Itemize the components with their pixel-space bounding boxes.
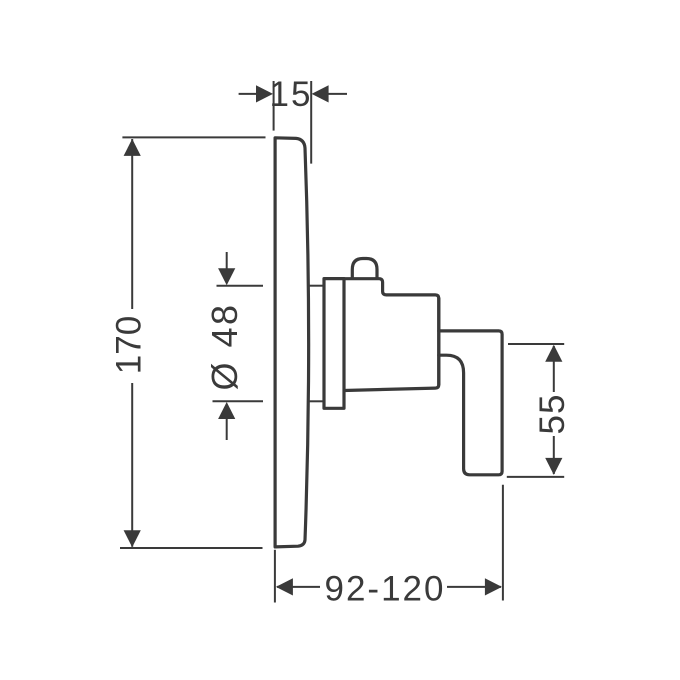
dim 55: top arrowhead (points up)	[545, 345, 562, 362]
flange sleeve	[324, 279, 344, 409]
dim 92-120: dimension line left segment	[277, 586, 320, 588]
temperature knob on top of valve body	[352, 259, 377, 279]
valve body	[344, 279, 439, 391]
dim 170: dimension line lower segment	[131, 383, 133, 547]
dim 55: bottom extension line	[507, 476, 564, 478]
svg-text:92-120: 92-120	[325, 570, 446, 609]
dim 92-120: dimension line right segment	[447, 586, 501, 588]
dim Ø48: bottom tick left part	[213, 400, 264, 402]
dim 15: right extension line	[310, 81, 312, 164]
dim Ø48: top tick right part (plate to flange)	[309, 285, 323, 287]
dim 92-120: right extension line	[502, 485, 504, 601]
dim 170: dimension line upper segment	[131, 139, 133, 309]
valve body right edge (redrawn over handle joint)	[437, 299, 440, 385]
dim 15: left leader tail	[239, 93, 257, 95]
dim Ø48: top arrowhead (points down)	[218, 268, 235, 285]
svg-text:55: 55	[533, 394, 572, 435]
dim 55: top extension line	[508, 343, 564, 345]
dim 170: bottom extension line	[120, 547, 263, 549]
lever handle	[439, 331, 502, 475]
svg-text:15: 15	[270, 75, 313, 114]
dim 15: right arrowhead	[312, 85, 329, 102]
dim 92-120: right arrowhead	[485, 578, 502, 595]
dim Ø48: top arrow tail	[226, 252, 228, 270]
dim 170: top extension line	[122, 136, 265, 138]
dim 15: left arrowhead	[256, 85, 273, 102]
dim 55: dimension line upper segment	[553, 346, 555, 392]
dim Ø48: bottom arrow tail	[226, 418, 228, 441]
dim Ø48: bottom arrowhead (points up)	[218, 402, 235, 419]
dim 15: left extension line	[273, 81, 275, 131]
svg-text:Ø 48: Ø 48	[204, 302, 245, 390]
dim 92-120: left extension line	[274, 550, 276, 603]
dim Ø48: top tick left part	[217, 285, 264, 287]
dim 170: bottom arrowhead	[124, 530, 141, 547]
dim 170: top arrowhead	[124, 139, 141, 156]
dim 92-120: left arrowhead	[276, 578, 293, 595]
dim 55: bottom arrowhead (points down)	[545, 458, 562, 475]
dim Ø48: bottom tick right part (plate to flange)	[309, 400, 323, 402]
dim 55: dimension line lower segment	[553, 436, 555, 474]
svg-text:170: 170	[110, 316, 149, 374]
escutcheon plate (side view)	[275, 138, 309, 547]
dim 15: right leader tail	[328, 93, 348, 95]
